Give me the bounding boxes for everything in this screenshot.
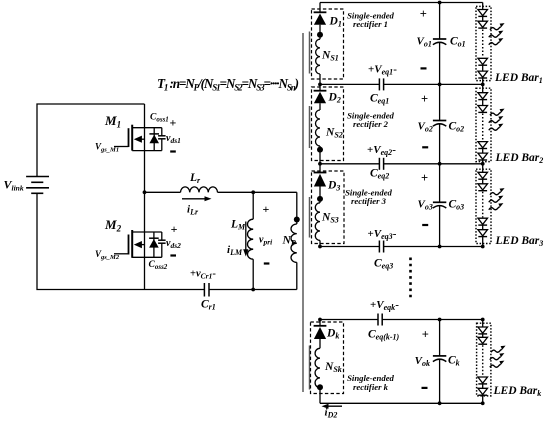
winding NSk with diode Dk bbox=[314, 320, 327, 404]
junction: LED bar1/bar2 bbox=[481, 83, 485, 87]
wire E bbox=[320, 319, 378, 321]
svg-text:Vlink: Vlink bbox=[4, 178, 24, 193]
svg-text:LED Bar1: LED Bar1 bbox=[494, 72, 543, 85]
svg-text:+: + bbox=[421, 92, 428, 106]
polarity dot NS1 bbox=[317, 32, 323, 38]
junction: Co1 rail top bbox=[438, 1, 442, 5]
svg-text:vds2: vds2 bbox=[166, 238, 181, 250]
wire: left rail top + top wire to half-bridge bbox=[37, 104, 145, 177]
svg-text:iD2: iD2 bbox=[325, 407, 338, 420]
core bar NS3 bbox=[309, 197, 311, 238]
junction: Ck rail top bbox=[438, 318, 442, 322]
core bar NS2 bbox=[309, 106, 311, 148]
svg-text:M1: M1 bbox=[104, 113, 121, 130]
light arrows bar3 bbox=[489, 188, 505, 210]
LED bar 3 bbox=[476, 164, 491, 247]
wire F bbox=[320, 402, 483, 404]
svg-text:+: + bbox=[422, 327, 429, 341]
wire B bbox=[320, 83, 379, 85]
svg-text:Co1: Co1 bbox=[450, 36, 466, 49]
diode (body) of M1 bbox=[149, 128, 159, 151]
svg-text:Coss1: Coss1 bbox=[150, 113, 169, 124]
light arrows bar2 bbox=[489, 109, 505, 131]
svg-text:rectifier 1: rectifier 1 bbox=[353, 19, 388, 29]
svg-text:Vgs_M2: Vgs_M2 bbox=[95, 249, 120, 261]
ellipsis dots (sections continue) bbox=[409, 258, 412, 301]
polarity dot NSk bbox=[317, 384, 323, 390]
svg-text:LED Bark: LED Bark bbox=[493, 385, 542, 398]
wire A (top output wire) bbox=[320, 2, 483, 4]
output rail section1 with capacitor Co1 bbox=[433, 3, 446, 85]
junction: NS2 bottom / D3 cathode bbox=[318, 162, 322, 166]
svg-text:M2: M2 bbox=[104, 217, 122, 234]
junction: NS1 bottom / D2 cathode bbox=[318, 83, 322, 87]
svg-text:LED Bar2: LED Bar2 bbox=[495, 152, 544, 165]
wire: switch node to Lr bbox=[145, 191, 181, 193]
svg-text:Vo1: Vo1 bbox=[417, 36, 432, 49]
junction: NS3 bottom bbox=[318, 245, 322, 249]
wire C bbox=[320, 163, 379, 165]
svg-text:+: + bbox=[170, 116, 177, 130]
rectifier 1 dashed box bbox=[312, 9, 344, 79]
svg-text:NS2: NS2 bbox=[325, 127, 343, 140]
svg-text:+Veq1-: +Veq1- bbox=[368, 63, 397, 76]
rectifier 2 dashed box bbox=[312, 87, 344, 161]
svg-text:+: + bbox=[171, 222, 178, 236]
arrow iD2 bbox=[322, 404, 343, 409]
svg-text:+: + bbox=[421, 171, 428, 185]
rectifier k dashed box bbox=[311, 322, 344, 394]
svg-text:+Veq3-: +Veq3- bbox=[368, 228, 397, 241]
LED bar 2 bbox=[476, 84, 491, 163]
svg-text:Vo3: Vo3 bbox=[418, 199, 433, 212]
junction: LED bark bottom bbox=[481, 401, 485, 405]
svg-text:D2: D2 bbox=[328, 92, 341, 105]
svg-text:Ck: Ck bbox=[448, 355, 460, 368]
junction: LED bark top bbox=[481, 318, 485, 322]
svg-text:Vo2: Vo2 bbox=[418, 121, 433, 134]
svg-text:+: + bbox=[263, 202, 270, 216]
diode (body) of M2 bbox=[149, 232, 159, 257]
svg-text:Co2: Co2 bbox=[449, 121, 465, 134]
arrow iLM bbox=[243, 222, 248, 257]
winding NP bbox=[291, 192, 297, 289]
capacitor Ceq3 bbox=[379, 241, 383, 253]
svg-text:+vCr1-: +vCr1- bbox=[190, 269, 216, 281]
svg-text:T1 :n=NP/(NS1=NS2=NS3=····NSn): T1 :n=NP/(NS1=NS2=NS3=····NSn) bbox=[157, 76, 299, 93]
transistor M1 bbox=[114, 125, 162, 151]
output rail section2 with capacitor Co2 bbox=[433, 84, 446, 163]
svg-text:Lr: Lr bbox=[189, 172, 201, 185]
output rail section3 with capacitor Co3 bbox=[433, 164, 446, 247]
svg-text:+Veqk-: +Veqk- bbox=[370, 299, 399, 312]
LED bar 1 bbox=[476, 3, 491, 85]
wire: left rail bottom bbox=[37, 193, 204, 289]
junction: LM top bbox=[251, 190, 255, 194]
LED bar k bbox=[477, 320, 491, 404]
junction: switch node bbox=[143, 190, 147, 194]
svg-text:Co3: Co3 bbox=[449, 199, 465, 212]
wire: bottom wire to NP bbox=[209, 289, 297, 291]
rectifier 3 dashed box bbox=[312, 171, 345, 244]
svg-text:+Veq2-: +Veq2- bbox=[367, 144, 396, 157]
polarity dot NS2 bbox=[317, 147, 323, 153]
svg-text:D1: D1 bbox=[329, 16, 342, 29]
svg-text:rectifier 2: rectifier 2 bbox=[353, 119, 389, 129]
capacitor Cr1 bbox=[204, 283, 209, 297]
svg-text:D3: D3 bbox=[327, 180, 340, 193]
svg-text:NSk: NSk bbox=[324, 361, 342, 374]
junction: Co1/Co2 rail bbox=[438, 83, 442, 87]
inductor Lr bbox=[181, 187, 218, 192]
svg-text:rectifier k: rectifier k bbox=[353, 382, 389, 392]
svg-text:Ceq3: Ceq3 bbox=[374, 258, 393, 271]
capacitor Ceq1 bbox=[379, 78, 383, 90]
capacitor Ceq(k-1) bbox=[378, 314, 382, 326]
polarity dot NS3 bbox=[317, 196, 323, 202]
svg-text:iLr: iLr bbox=[187, 204, 199, 217]
svg-text:Coss2: Coss2 bbox=[149, 260, 168, 271]
wire: Lr to LM node bbox=[218, 191, 297, 193]
svg-text:NS1: NS1 bbox=[321, 50, 339, 63]
winding NS2 with diode D2 bbox=[314, 84, 327, 163]
svg-text:Ceq1: Ceq1 bbox=[370, 93, 389, 106]
capacitor Ceq2 bbox=[379, 158, 383, 170]
svg-text:Ceq(k-1): Ceq(k-1) bbox=[368, 329, 400, 342]
transformer core (long line) bbox=[302, 33, 304, 392]
winding NS1 with diode D1 bbox=[314, 3, 327, 85]
battery Vlink bbox=[26, 177, 49, 194]
light arrows bark bbox=[490, 346, 506, 368]
svg-text:Cr1: Cr1 bbox=[201, 299, 216, 312]
junction: Ck rail bottom bbox=[438, 401, 442, 405]
transistor M2 bbox=[114, 230, 162, 258]
light arrows bar1 bbox=[489, 23, 505, 45]
svg-text:Dk: Dk bbox=[326, 328, 339, 341]
capacitor Coss2 bbox=[158, 232, 166, 257]
svg-text:LM: LM bbox=[230, 219, 246, 232]
svg-text:iLM: iLM bbox=[227, 244, 243, 257]
svg-text:rectifier 3: rectifier 3 bbox=[351, 196, 387, 206]
svg-text:+: + bbox=[420, 7, 427, 21]
capacitor Coss1 bbox=[158, 128, 166, 151]
junction: Dk cathode node bbox=[318, 318, 322, 322]
output rail sectionk with capacitor Ck bbox=[433, 320, 446, 404]
svg-text:LED Bar3: LED Bar3 bbox=[495, 235, 544, 248]
junction: LED bar2/bar3 bbox=[481, 162, 485, 166]
junction: LED bar3 bottom bbox=[481, 245, 485, 249]
junction: Co3 rail bottom bbox=[438, 245, 442, 249]
winding NS3 with diode D3 bbox=[314, 164, 327, 247]
svg-text:Vgs_M1: Vgs_M1 bbox=[95, 142, 119, 154]
wire: half-bridge rail bbox=[144, 104, 146, 290]
svg-text:NP: NP bbox=[282, 235, 296, 248]
svg-text:Vok: Vok bbox=[415, 355, 430, 368]
svg-text:vds1: vds1 bbox=[166, 133, 181, 145]
polarity dot NP bbox=[294, 217, 300, 223]
core bar NS1 bbox=[309, 32, 311, 74]
junction: LM bottom bbox=[251, 288, 255, 292]
inductor LM bbox=[247, 192, 253, 289]
junction: Co2/Co3 rail bbox=[438, 162, 442, 166]
arrow iLr bbox=[182, 196, 212, 201]
svg-text:NS3: NS3 bbox=[321, 212, 339, 225]
wire D bbox=[320, 246, 379, 248]
svg-text:vpri: vpri bbox=[259, 235, 273, 247]
core bar NSk bbox=[309, 346, 311, 390]
